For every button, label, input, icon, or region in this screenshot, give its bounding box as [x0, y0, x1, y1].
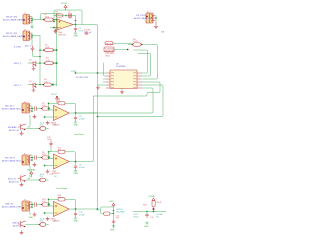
wire IC pin2 up-left [104, 63, 107, 76]
svg-text:LMV358: LMV358 [52, 125, 60, 127]
net port VDD/2 tap [51, 94, 58, 103]
junction longwire/y116.5 [97, 116, 99, 118]
resistor R6 (top right) [132, 39, 143, 46]
junction output [75, 112, 77, 114]
wire Q1 to R3 [36, 62, 44, 64]
ground micbias [110, 226, 115, 232]
wire J1 to R1 [32, 14, 57, 20]
svg-text:Low Voltage: Low Voltage [56, 187, 68, 190]
junction +in [44, 165, 46, 167]
wire jack bus [32, 202, 34, 208]
svg-text:AUDIO_BASE_MIC2: AUDIO_BASE_MIC2 [2, 160, 22, 163]
junction midv/Q1 [39, 62, 41, 64]
wire IC pin3 stub [103, 78, 106, 80]
wire +in stub [50, 27, 57, 29]
junction bus [31, 157, 33, 159]
svg-text:PCM1808: PCM1808 [116, 66, 126, 68]
ground near U2B [46, 170, 49, 174]
ground below MIC2 bus [33, 163, 36, 167]
capacitor C13 (micbias) [112, 221, 115, 222]
junction top rail right [75, 20, 77, 22]
svg-text:470pF: 470pF [79, 167, 85, 169]
IC U2 body [110, 70, 137, 89]
junction +in [44, 116, 46, 118]
pin stubs J2 [30, 33, 32, 39]
transistor Q5 [18, 221, 26, 227]
wire stage2 output to nest [69, 96, 94, 162]
capacitor C14 (pll) [146, 212, 149, 218]
svg-text:LINE_R: LINE_R [12, 223, 20, 225]
junction stage3/long vertical [97, 208, 99, 210]
junction midv/miccap [39, 56, 41, 58]
op-amp U2A [54, 106, 70, 121]
junction R4 end [52, 84, 54, 86]
wire I2S SCKI (pin1r up-left) [134, 50, 148, 73]
pin dot OSC wire [127, 49, 129, 51]
wire stage1 to IC pin6r (nest 3) [76, 88, 154, 113]
svg-text:VDD/2: VDD/2 [61, 3, 68, 5]
connector J2 (3.5mm jack) [23, 31, 30, 41]
transistor Q3 [18, 124, 26, 130]
svg-text:GND: GND [144, 226, 149, 228]
wire mic bias down [33, 52, 41, 57]
resistor R5 (feedback) [56, 11, 64, 17]
wire IC pin1 to vref [76, 72, 107, 74]
ground left of IC [96, 85, 106, 89]
svg-text:MICBIAS: MICBIAS [8, 126, 17, 129]
svg-text:LMV358: LMV358 [52, 221, 60, 223]
wire R15 loop [101, 207, 114, 214]
wire +in stub [45, 212, 54, 214]
ground near U2C [46, 217, 49, 221]
capacitor C10 [35, 203, 37, 207]
junction R1/trunk [56, 19, 58, 21]
pin stubs [30, 202, 32, 207]
wire resistor to feedback node [49, 108, 50, 110]
capacitor C8 [35, 156, 37, 160]
wire cap to resistor [36, 157, 42, 159]
junction row1/feedback [48, 157, 50, 159]
capacitor C16 (electrolytic) [40, 178, 46, 182]
wire row2 [26, 179, 49, 181]
svg-text:3.5 MIC: 3.5 MIC [14, 47, 22, 49]
resistor R16 (above IC) [105, 42, 114, 46]
wire feedback left vertical [49, 152, 54, 159]
svg-text:GND: GND [74, 173, 79, 175]
connector J4 (top right) [146, 13, 153, 23]
power flag +3V3A (pll subckt) [148, 195, 155, 201]
ground pll [144, 222, 149, 228]
capacitor C15 (electrolytic) [40, 127, 46, 131]
svg-text:VCOM: VCOM [84, 30, 90, 32]
junction row1/feedback [48, 108, 50, 110]
junction micbias a [113, 210, 115, 212]
wire IC pin4 stub [103, 81, 106, 83]
svg-text:AUDIO_BASE_LINE: AUDIO_BASE_LINE [2, 206, 22, 209]
red GND flag top mid [53, 27, 59, 34]
power flag +3V3 (micbias subckt) [109, 201, 116, 207]
junction midv/Q2 [39, 84, 41, 86]
junction vref/longwire [97, 72, 99, 74]
svg-text:LMV358: LMV358 [58, 34, 66, 36]
junction pll a [153, 211, 155, 213]
svg-text:AUDIO_BASE_EARPH: AUDIO_BASE_EARPH [3, 19, 25, 22]
wire J1 pin bus [31, 17, 33, 27]
wire stage1 output to nest [69, 112, 98, 114]
svg-text:MD/SCK: MD/SCK [106, 43, 114, 45]
ground below J7 bus [33, 213, 36, 217]
wire jack bus [32, 106, 34, 112]
wire R3 to trunk [54, 62, 57, 64]
wire OSC box right [114, 49, 127, 51]
capacitor C12 [74, 209, 77, 217]
svg-text:Low Noise: Low Noise [74, 134, 85, 136]
transistor Q1 [31, 61, 37, 66]
ground below C12 [74, 218, 79, 223]
resistor R4 [42, 79, 51, 86]
wire left mid vertical [39, 36, 41, 85]
wire R6 right to IC pin3r [142, 45, 158, 80]
svg-text:LINE_IN: LINE_IN [5, 204, 13, 206]
label box OSC [104, 47, 116, 57]
junction J4 [155, 17, 157, 19]
power flag VDD/2 [61, 3, 68, 10]
svg-text:AUDIO_BASE_I2S: AUDIO_BASE_I2S [134, 17, 152, 20]
wire jack pin down [29, 212, 32, 216]
connector J1 (3.5mm jack) [23, 15, 30, 25]
svg-text:VCOM 1.65V: VCOM 1.65V [76, 77, 89, 79]
pin stubs [30, 106, 32, 111]
svg-text:MICBIAS: MICBIAS [27, 168, 36, 171]
svg-text:AGND: AGND [53, 27, 59, 30]
wire R6 left stub [128, 44, 132, 46]
junction R2/trunk [56, 49, 58, 51]
wire +in stub [45, 116, 54, 118]
wire R2 to trunk [54, 49, 57, 51]
svg-text:600R: 600R [157, 202, 162, 204]
wire cap to resistor [36, 204, 42, 206]
wire R4 to trunk [51, 84, 56, 86]
ground below J4 [154, 22, 157, 28]
svg-text:AUDIO_M: AUDIO_M [9, 180, 19, 183]
wire jack to Q3 [28, 115, 30, 127]
wire R16 to nest [113, 42, 132, 44]
wire opamp1 output [73, 25, 98, 210]
wire top rail [54, 10, 82, 25]
svg-text:2.2k: 2.2k [42, 154, 46, 156]
junction J1 bus [31, 18, 33, 20]
IC U2 pin names [111, 73, 136, 88]
junction bus [31, 108, 33, 110]
red flag near output cap [84, 30, 90, 35]
ground below Q2 [32, 88, 35, 92]
power flag MICBIAS (stage2) [27, 168, 36, 177]
svg-text:GND: GND [74, 221, 79, 223]
wire feedback row [54, 16, 76, 25]
wire row2 [26, 128, 49, 130]
wire +in stub [45, 165, 54, 167]
svg-text:MIC_IN_L: MIC_IN_L [5, 106, 15, 108]
svg-text:AUDIO_L: AUDIO_L [13, 224, 23, 227]
svg-text:470pF: 470pF [79, 118, 85, 120]
wire J2 pin bus [31, 33, 33, 45]
wire resistor to feedback node [49, 204, 50, 206]
junction feedback mid [65, 15, 67, 17]
wire row2 [26, 224, 49, 226]
ground below IC [120, 89, 123, 94]
capacitor C2 (feedback) [68, 11, 72, 18]
svg-text:AUDIO_M: AUDIO_M [9, 129, 19, 132]
wire stage1 feedback rail [49, 103, 76, 113]
capacitor C (mic bias) [31, 46, 34, 52]
junction feedback left [48, 151, 50, 153]
junction pll b [146, 211, 148, 213]
svg-text:MIC2P_3V3: MIC2P_3V3 [6, 17, 18, 19]
ground below Q5 [20, 231, 23, 235]
junction output [75, 24, 77, 26]
svg-text:GND: GND [74, 125, 79, 127]
pin stubs J1 [30, 17, 32, 23]
connector J7 [22, 201, 30, 211]
wire jack to Q4 [28, 165, 30, 179]
op-amp U1A [57, 19, 73, 30]
capacitor C6 [74, 113, 77, 121]
ground below MIC1 bus [33, 115, 36, 119]
svg-text:+3V3A: +3V3A [148, 195, 155, 198]
capacitor C5 [35, 107, 37, 111]
wire stage3 feedback rail [49, 199, 76, 209]
pin stubs [30, 155, 32, 160]
transistor Q4 [18, 176, 26, 182]
wire Q1 base [28, 62, 31, 64]
ground GND below J1 [31, 27, 34, 29]
capacitor C17 (electrolytic) [40, 223, 46, 227]
svg-text:MIC1P_3V3: MIC1P_3V3 [6, 33, 18, 35]
wire stage3 output to long vertical [69, 208, 98, 210]
wire Q2 to R4 [36, 84, 43, 86]
svg-text:2.2k: 2.2k [42, 105, 46, 107]
wire stage3 to IC pin5r (nest 2) [98, 85, 164, 117]
junction micbias b [113, 213, 115, 215]
wire jack bus [32, 155, 34, 161]
junction +in [53, 27, 55, 29]
wire cap to resistor [36, 108, 42, 110]
ground below Q1 [32, 67, 35, 71]
resistor R2 [43, 45, 54, 52]
svg-text:GND: GND [29, 217, 34, 219]
svg-text:AUDIO_BASE_EARPH: AUDIO_BASE_EARPH [3, 35, 25, 38]
ground near U2A [46, 121, 49, 125]
svg-text:I2S_LRCK: I2S_LRCK [136, 15, 146, 17]
IC U2 left pins [106, 73, 110, 88]
junction +in [44, 212, 46, 214]
wire stage2 to IC pin4r (nest 1) [94, 82, 161, 96]
connector J5 [22, 103, 30, 113]
ground below Q4 [20, 183, 23, 187]
wire J2 row [32, 35, 40, 37]
wire Q2 base [28, 84, 31, 86]
wire C7 down to rail [50, 147, 52, 152]
wire R1 to trunk [54, 19, 57, 21]
ferrite bead FB1 [143, 201, 162, 208]
wire pll rail [133, 207, 166, 212]
wire resistor to feedback node [49, 157, 50, 159]
wire left trunk [56, 14, 58, 87]
junction J2 bus [31, 34, 33, 36]
junction feedback left [48, 199, 50, 201]
capacitor C7 (stage2 coupling) [47, 137, 53, 147]
junction bus [31, 204, 33, 206]
ground marker near +in [52, 29, 57, 31]
svg-text:GND: GND [110, 230, 115, 232]
capacitor C9 [74, 162, 77, 170]
wire I2S BCK (pin2r up-left) [138, 54, 151, 77]
svg-text:MIC2_N: MIC2_N [8, 178, 16, 180]
wire feedback left vertical [49, 199, 54, 206]
connector J6 [22, 155, 30, 165]
wire feedback left vertical [49, 103, 54, 110]
svg-text:LMV358: LMV358 [52, 173, 60, 175]
transistor Q2 [31, 83, 37, 88]
svg-text:2.2k: 2.2k [42, 201, 46, 203]
svg-text:MIC_P: MIC_P [25, 46, 32, 48]
svg-text:DVDD: DVDD [133, 216, 139, 218]
junction feedback left [48, 103, 50, 105]
svg-text:MICBIAS: MICBIAS [117, 210, 126, 213]
junction row1/feedback [48, 204, 50, 206]
junction midv/R2 [39, 49, 41, 51]
svg-text:VDD/2: VDD/2 [51, 94, 58, 96]
svg-text:GND: GND [74, 36, 79, 38]
ground below C3 [74, 33, 79, 38]
op-amp U2C [54, 202, 70, 217]
capacitor C3 (output) [74, 25, 77, 33]
ground below Q3 [20, 131, 23, 135]
junction vref end [75, 72, 77, 74]
junction R3/trunk [56, 62, 58, 64]
IC U2 right pins [137, 73, 142, 88]
resistor R15 (micbias) [96, 210, 110, 216]
svg-text:AUDIO_BASE_MIC1: AUDIO_BASE_MIC1 [2, 108, 22, 111]
junction feedback/-in [53, 21, 55, 23]
op-amp U2B [54, 154, 70, 169]
junction output [75, 208, 77, 210]
junction FB1 out [153, 208, 155, 210]
junction output [75, 161, 77, 163]
ground below C6 [74, 122, 79, 127]
wire micbias vertical [113, 207, 115, 228]
resistor R1 [43, 14, 54, 21]
svg-text:MIC_IN_R: MIC_IN_R [5, 158, 15, 160]
svg-text:MIC1_P: MIC1_P [14, 85, 22, 87]
wire vertical to R2 [40, 49, 44, 51]
wire J4 bus [155, 16, 157, 22]
svg-text:MIC2_P: MIC2_P [14, 63, 22, 65]
resistor R3 [44, 58, 55, 65]
J4 pin stubs [153, 16, 155, 21]
ground below C9 [74, 171, 79, 176]
wire stage2 feedback rail [49, 152, 76, 162]
svg-text:VREF: VREF [71, 71, 77, 73]
svg-text:10uF: 10uF [47, 139, 52, 141]
svg-text:470pF: 470pF [79, 214, 85, 216]
